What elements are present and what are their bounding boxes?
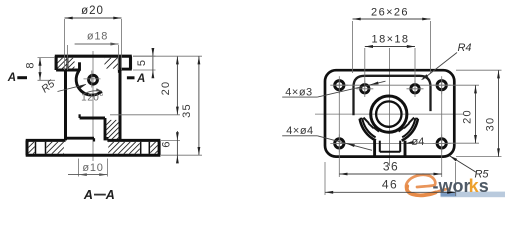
svg-text:4×ø4: 4×ø4 <box>286 125 313 137</box>
svg-text:6: 6 <box>161 141 173 147</box>
svg-text:A: A <box>83 188 93 202</box>
svg-text:20: 20 <box>160 81 172 96</box>
svg-text:-wor: -wor <box>433 176 471 196</box>
svg-text:120°: 120° <box>81 93 104 104</box>
svg-text:26×26: 26×26 <box>371 7 409 19</box>
svg-text:8: 8 <box>25 62 37 68</box>
svg-text:A: A <box>7 72 16 84</box>
svg-text:A: A <box>136 73 145 85</box>
svg-text:ø10: ø10 <box>82 162 103 174</box>
svg-text:ø20: ø20 <box>81 5 104 17</box>
svg-text:46: 46 <box>382 178 398 192</box>
svg-text:ø18: ø18 <box>87 31 108 43</box>
svg-text:5: 5 <box>136 60 148 66</box>
svg-text:s: s <box>479 176 489 196</box>
svg-text:R4: R4 <box>457 42 471 54</box>
svg-text:36: 36 <box>383 160 399 174</box>
svg-text:20: 20 <box>462 109 474 124</box>
svg-text:A: A <box>105 188 115 202</box>
svg-text:30: 30 <box>485 117 497 132</box>
svg-text:35: 35 <box>181 103 193 118</box>
svg-text:18×18: 18×18 <box>372 34 410 46</box>
